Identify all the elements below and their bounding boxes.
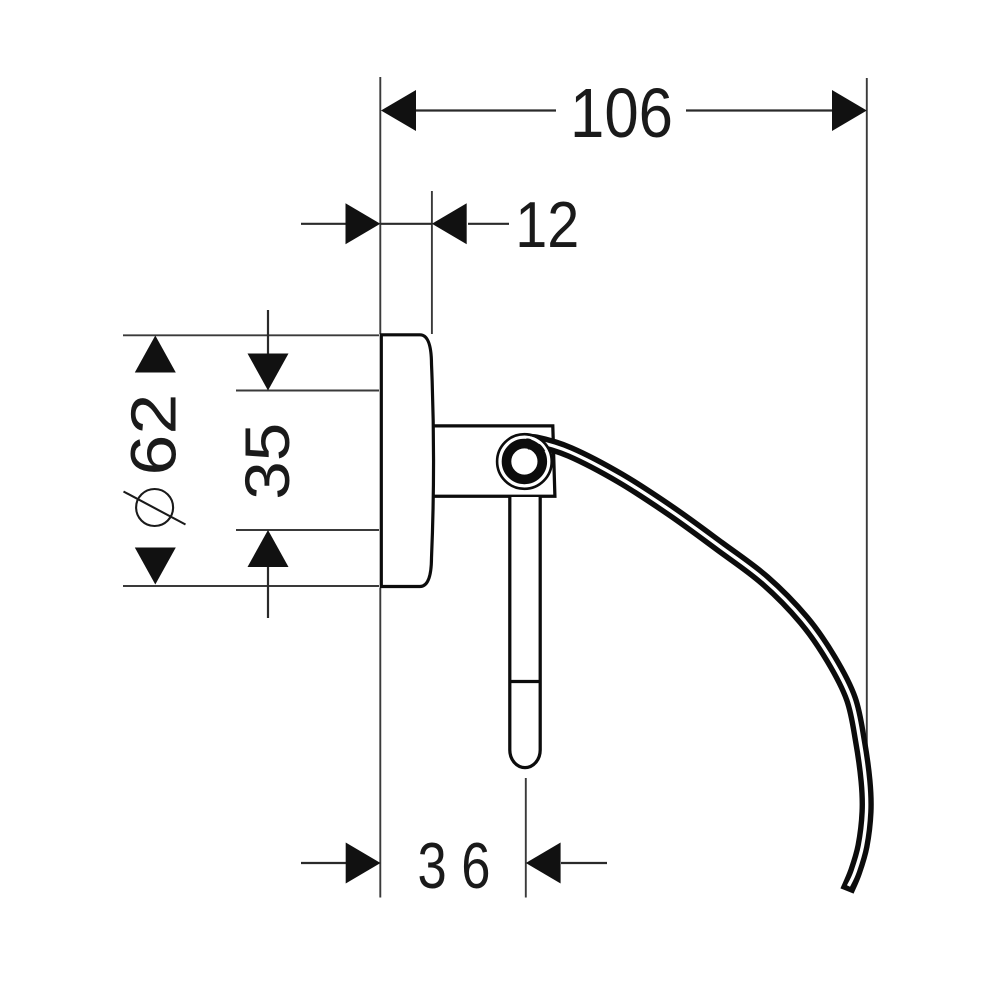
roll pin divider line	[510, 680, 540, 683]
holder arm	[430, 426, 555, 496]
svg-text:106: 106	[570, 74, 673, 152]
dimension 62 arrow up	[135, 336, 176, 373]
dimension 106 arrow right	[832, 90, 867, 131]
dimension 12 line middle segment	[380, 223, 432, 225]
dimension 12 line outside-right segment	[468, 223, 509, 225]
dimension 36 line left segment	[301, 862, 346, 864]
extension line horizontal 35-bottom (y=530)	[236, 529, 379, 531]
diameter symbol circle	[136, 489, 173, 526]
extension line horizontal 35-top (y=390)	[236, 390, 379, 392]
dimension 12 arrow pointing right	[346, 203, 381, 244]
svg-text:12: 12	[515, 188, 579, 261]
wall plate	[381, 335, 433, 587]
dimension 106 line left segment	[414, 109, 556, 111]
extension line horizontal bottom of plate (y=586)	[123, 585, 379, 587]
dimension 36 line right segment	[561, 862, 607, 864]
pivot outer circle	[497, 434, 552, 489]
dimension 12 line outside-left segment	[301, 223, 346, 225]
guard wire (black body)	[527, 441, 867, 891]
dimension 106 arrow left	[381, 90, 416, 131]
pivot coil (black donut)	[507, 444, 543, 480]
dimension 35 arrow up (bottom) with tail	[267, 565, 269, 618]
diameter symbol slash	[124, 492, 186, 525]
extension line left bottom part	[379, 588, 381, 898]
svg-text:62: 62	[118, 394, 190, 476]
svg-text:35: 35	[233, 423, 303, 500]
dimension 106 line right segment	[686, 109, 834, 111]
guard wire (white core)	[527, 441, 867, 886]
svg-text:3 6: 3 6	[418, 829, 491, 902]
roll pin post	[510, 497, 540, 768]
dimension 36 arrow pointing left	[526, 843, 561, 884]
dimension 62 arrow down	[135, 548, 176, 585]
dimension 12 arrow pointing left	[432, 203, 467, 244]
extension line left (wall plate left edge, x=380) top part	[379, 77, 381, 334]
pivot inner white hole	[512, 449, 537, 474]
extension line horizontal top of plate (y=335)	[123, 334, 379, 336]
extension line right (x=867) for 106	[866, 78, 868, 750]
extension line post axis (x=526) for 36	[525, 778, 527, 898]
dimension 36 arrow pointing right	[346, 843, 381, 884]
extension line plate right edge (x=432)	[431, 191, 433, 334]
pivot white gap ring	[500, 437, 549, 486]
dimension 35 arrow down (top) with tail	[267, 310, 269, 355]
